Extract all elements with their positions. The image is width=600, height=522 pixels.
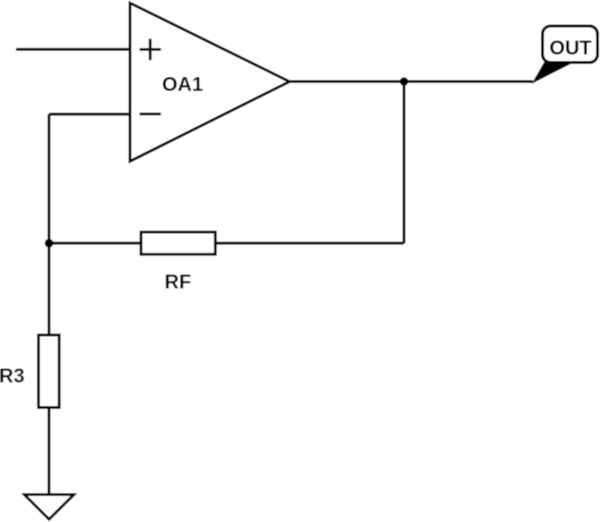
wire: feedback left segment [49, 242, 141, 245]
resistor RF [141, 232, 215, 254]
svg-text:R3: R3 [0, 365, 25, 387]
svg-text:OUT: OUT [549, 38, 591, 60]
wire: R3 down to ground [48, 408, 51, 495]
junction dot at output node [400, 77, 409, 86]
wire: left vertical (inverting input down to feedback node) [48, 114, 51, 243]
ground [24, 495, 74, 520]
node: inverting input / feedback junction dot [45, 239, 54, 248]
wire: inverting input horizontal [49, 113, 130, 116]
svg-text:OA1: OA1 [162, 74, 203, 96]
wire: node down to R3 [48, 243, 51, 335]
op-amp U1 (OA1) [130, 3, 290, 161]
resistor R3 [39, 335, 60, 408]
svg-text:RF: RF [165, 272, 192, 294]
wire: feedback right segment [215, 242, 404, 245]
wire: op-amp output [290, 80, 534, 83]
wire: non-inverting input [16, 48, 130, 51]
wire: right vertical (output down to feedback) [403, 82, 406, 244]
flag OUT (net flag with tail) [533, 26, 598, 83]
